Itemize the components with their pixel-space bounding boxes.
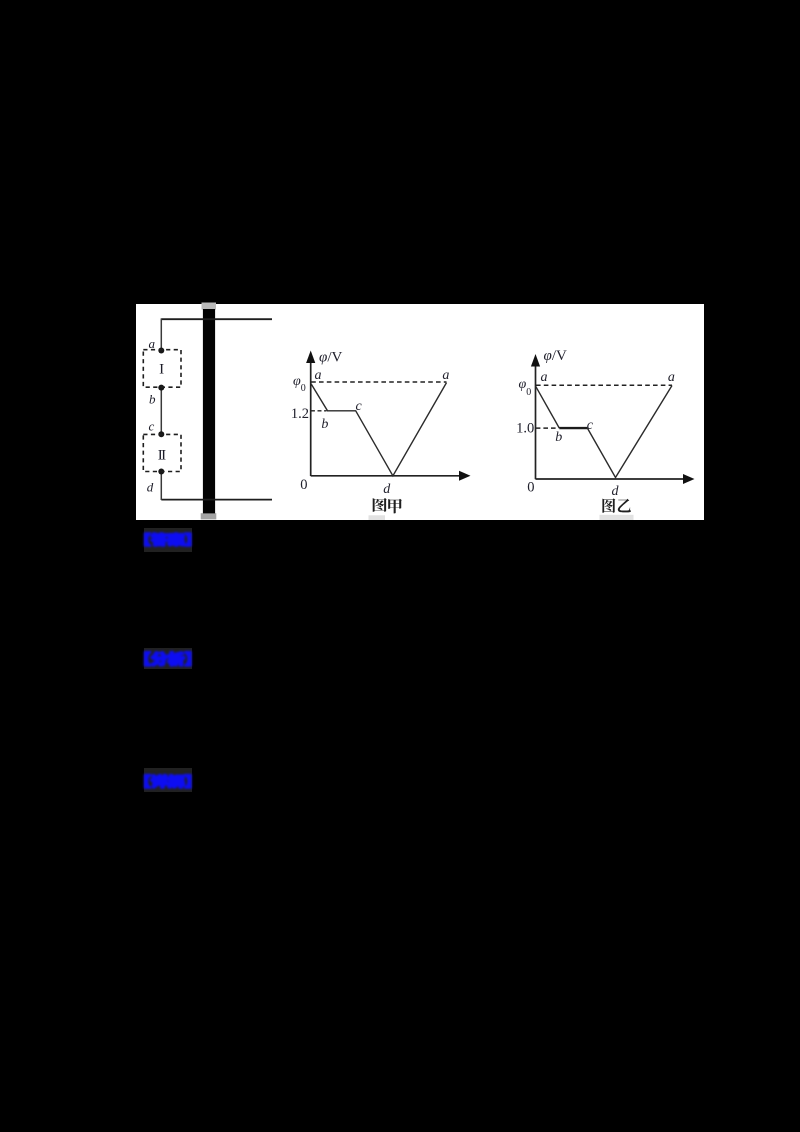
jia y-axis arrowhead (306, 351, 315, 364)
svg-text:c: c (355, 399, 362, 414)
svg-text:φ0: φ0 (518, 377, 531, 398)
gray smudge under yi caption (599, 515, 633, 520)
svg-text:b: b (321, 417, 328, 432)
svg-text:a: a (540, 370, 547, 385)
svg-text:0: 0 (300, 477, 307, 493)
svg-text:I: I (159, 361, 164, 377)
gray smudge under jia caption (368, 515, 385, 520)
jia potential curve a-b-c-d-a (311, 383, 446, 476)
yi y-axis arrowhead (530, 354, 539, 367)
wire bottom horizontal (161, 499, 272, 501)
svg-text:c: c (148, 419, 154, 434)
caption 图乙 char 图 (602, 498, 615, 512)
element box I (dashed) (143, 350, 181, 388)
yi tick dashes at 1.0 level (535, 427, 555, 429)
jia dashed top line at phi0 (311, 381, 446, 383)
answer tag 2 background (144, 648, 192, 669)
svg-text:a: a (314, 368, 321, 383)
node a (terminal dot) (158, 348, 164, 354)
answer tag 3 background (144, 768, 192, 792)
yi potential curve segment a-b (535, 386, 559, 428)
node b (terminal dot) (158, 385, 164, 391)
caption 图乙 char 乙 (617, 499, 630, 513)
svg-text:φ/V: φ/V (319, 350, 342, 366)
answer tag 1 background (144, 528, 192, 552)
yi potential curve bold segment b-c (559, 427, 587, 429)
wire top horizontal (161, 318, 272, 320)
element box II (dashed) (143, 434, 181, 471)
answer tag 3 blue text (143, 770, 193, 791)
svg-text:φ0: φ0 (293, 374, 306, 394)
node c (terminal dot) (158, 431, 164, 437)
answer tag 1 blue text (143, 529, 193, 550)
svg-text:a: a (148, 336, 155, 351)
caption 图甲 char 图 (372, 498, 386, 512)
svg-text:b: b (149, 391, 156, 406)
svg-text:1.2: 1.2 (290, 406, 308, 422)
wire node d to bottom (160, 472, 162, 501)
jia y-axis (309, 360, 311, 476)
yi x-axis arrowhead (683, 474, 695, 484)
svg-text:b: b (555, 430, 562, 445)
svg-text:d: d (146, 480, 153, 495)
jia x-axis (310, 475, 462, 477)
wire node b to node c (160, 388, 162, 435)
svg-text:d: d (383, 482, 391, 497)
yi x-axis (535, 478, 687, 480)
conducting rod bottom gray cap (200, 513, 216, 519)
jia tick dashes at 1.2 level (310, 410, 326, 412)
node d (terminal dot) (158, 469, 164, 475)
svg-text:a: a (667, 370, 674, 385)
svg-text:1.0: 1.0 (516, 420, 534, 436)
figure panel (white) (136, 304, 705, 520)
svg-text:φ/V: φ/V (543, 348, 566, 364)
yi dashed top line at phi0 (536, 384, 672, 386)
svg-text:d: d (611, 484, 619, 499)
jia x-axis arrowhead (459, 471, 471, 481)
answer tag 2 blue text (143, 648, 193, 669)
svg-text:a: a (442, 368, 449, 383)
svg-text:II: II (157, 448, 165, 464)
conducting rod top gray cap (201, 303, 216, 310)
yi y-axis (534, 363, 536, 479)
svg-text:0: 0 (527, 480, 534, 496)
yi potential curve segment c-d-a (587, 386, 672, 478)
conducting rod (thick vertical bar) (202, 309, 214, 513)
wire left vertical: top to node a (160, 318, 162, 350)
svg-text:c: c (586, 418, 593, 433)
caption 图甲 char 甲 (388, 499, 402, 514)
